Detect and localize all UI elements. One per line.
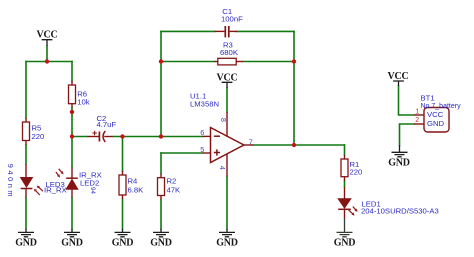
svg-text:No.7_battery: No.7_battery — [421, 103, 462, 110]
svg-text:GND: GND — [427, 119, 445, 128]
svg-text:7: 7 — [249, 137, 253, 146]
svg-text:4: 4 — [218, 166, 227, 170]
svg-text:VCC: VCC — [387, 71, 408, 82]
svg-text:8: 8 — [219, 118, 228, 122]
svg-text:5: 5 — [200, 145, 204, 154]
svg-text:2: 2 — [415, 117, 419, 124]
svg-text:VCC: VCC — [36, 29, 57, 40]
svg-text:GND: GND — [216, 237, 238, 248]
svg-text:47K: 47K — [167, 185, 182, 194]
svg-text:VCC: VCC — [216, 73, 237, 84]
svg-text:94: 94 — [89, 187, 96, 194]
svg-text:1: 1 — [415, 108, 419, 115]
svg-text:GND: GND — [15, 237, 37, 248]
svg-text:R4: R4 — [128, 177, 139, 186]
svg-text:GND: GND — [150, 237, 172, 248]
svg-text:220: 220 — [350, 167, 363, 176]
svg-text:GND: GND — [334, 237, 356, 248]
svg-text:220: 220 — [32, 132, 45, 141]
svg-text:IR_RX: IR_RX — [44, 186, 67, 195]
svg-text:204-10SURD/S530-A3: 204-10SURD/S530-A3 — [361, 207, 439, 216]
svg-text:BT1: BT1 — [421, 94, 435, 103]
svg-text:GND: GND — [61, 237, 83, 248]
svg-text:LM358N: LM358N — [190, 100, 219, 109]
svg-text:6: 6 — [200, 128, 204, 137]
svg-text:100nF: 100nF — [221, 15, 243, 24]
svg-text:4.7uF: 4.7uF — [97, 120, 117, 129]
svg-text:940nm: 940nm — [6, 164, 15, 199]
svg-text:R2: R2 — [167, 177, 177, 186]
svg-text:GND: GND — [112, 237, 134, 248]
svg-text:6.8K: 6.8K — [128, 185, 145, 194]
svg-text:10k: 10k — [77, 98, 90, 107]
svg-text:680K: 680K — [220, 48, 239, 57]
svg-text:VCC: VCC — [427, 110, 444, 119]
svg-text:GND: GND — [388, 157, 410, 168]
